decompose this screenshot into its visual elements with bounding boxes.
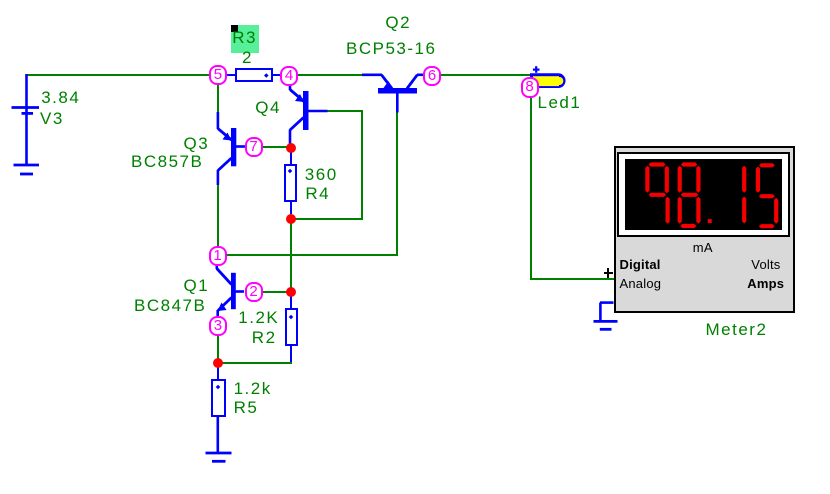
resistor R3 (box): [235, 68, 273, 82]
wire node 2 to junction: [261, 291, 291, 293]
junction dot node 2 / R2 top: [286, 287, 296, 297]
pin R3 left (blue): [224, 74, 236, 76]
selection handle square: [231, 25, 238, 32]
resistor R5 (box): [211, 379, 226, 417]
digit 9: [649, 162, 666, 166]
meter display black area: [625, 159, 782, 230]
transistor Q3 BC857B (PNP): [200, 105, 260, 195]
node 7: [245, 137, 263, 157]
meter mode Digital (bold): [620, 258, 661, 271]
node 5: [209, 65, 227, 85]
label Q1: [184, 277, 210, 294]
wire R2 bottom horizontal to node 3 column junction: [217, 362, 292, 364]
digit 5: [759, 163, 775, 167]
wire node 3 down to junction: [217, 334, 219, 360]
node 8: [521, 77, 539, 98]
wire loop vertical x=362: [361, 110, 363, 220]
junction dot node 3 column / R2 bottom: [213, 358, 223, 368]
ground under R5: [195, 415, 245, 470]
meter Meter2 body: [614, 146, 796, 313]
meter range Volts: [751, 258, 780, 271]
transistor Q4 (PNP): [280, 80, 340, 150]
decimal point: [708, 219, 712, 223]
node 3: [209, 316, 227, 336]
digit 1: [742, 165, 746, 192]
wire node 7 to R4 top junction: [260, 146, 292, 148]
label V3 value 3.84: [41, 89, 80, 106]
resistor R4 (box): [284, 164, 297, 202]
wire node 1 rail to Q2 collector column: [217, 254, 398, 256]
label Q1 type BC847B: [134, 297, 206, 314]
label R5 value 1.2k: [234, 380, 272, 397]
wire Q2 collector vertical: [396, 112, 398, 256]
pin R4 bottom (blue): [290, 200, 292, 214]
label Q2: [385, 14, 411, 31]
highlight box around R3 label (selection): [231, 25, 259, 53]
resistor R2 (box): [285, 308, 299, 346]
meter unit label mA: [693, 241, 713, 254]
wire battery top to node 5 (top rail left): [26, 74, 211, 76]
wire node 8 down to meter row: [530, 97, 532, 280]
node 2: [245, 282, 263, 302]
node 4: [280, 66, 298, 86]
wire to meter + terminal: [530, 278, 614, 280]
R3 diamond marker: [261, 71, 272, 80]
digit 8: [681, 162, 697, 166]
label Q4: [255, 99, 281, 116]
label R4: [305, 185, 330, 202]
label Meter2: [706, 321, 768, 338]
label R2 value 1.2K: [238, 309, 279, 326]
wire node 5 down to Q3 emitter: [217, 84, 219, 113]
junction dot R4 top (node 7 net): [286, 143, 296, 153]
LED Led1: [525, 58, 580, 93]
pin R4 top (blue): [290, 150, 292, 165]
wire R4 bottom junction to loop: [291, 218, 363, 220]
wire Q3 collector down to node 1: [217, 184, 219, 247]
meter mode Analog: [620, 277, 662, 290]
label R3 value 2: [242, 49, 253, 66]
wire node 4 to Q2 base lead: [297, 74, 363, 76]
wire node 6 to node 8 (LED anode): [439, 74, 530, 76]
meter 7-segment reading 98.15: [625, 159, 782, 230]
R2 diamond marker: [287, 313, 295, 321]
R5 diamond marker: [214, 383, 222, 391]
node 1: [209, 246, 227, 266]
label Q2 type BCP53-16: [346, 40, 436, 57]
wire R4 bottom junction down to node 2 junction: [290, 223, 292, 292]
meter + terminal mark: [604, 272, 613, 275]
transistor Q2 BCP53-16 (PNP, horizontal): [355, 60, 435, 120]
battery V3: [0, 60, 60, 190]
label R2: [252, 329, 277, 346]
meter range Amps (bold): [747, 277, 784, 290]
label R3: [232, 29, 257, 46]
R4 diamond marker: [286, 167, 294, 175]
label Q3: [184, 135, 210, 152]
node 6: [423, 66, 441, 86]
meter display frame: [617, 152, 790, 238]
label Led1: [538, 94, 582, 111]
pin R2 top (blue): [290, 295, 292, 309]
label R4 value 360: [305, 166, 338, 183]
label V3: [40, 110, 64, 127]
pin R2 bottom (blue): [290, 344, 292, 362]
transistor Q1 BC847B (NPN): [200, 255, 260, 325]
junction dot R4 bottom: [286, 214, 296, 224]
pin R5 top (blue): [217, 366, 219, 380]
ground at meter: [585, 295, 630, 340]
wire Q4 base to loop corner: [327, 110, 363, 112]
label Q3 type BC857B: [131, 153, 203, 170]
label R5: [234, 399, 259, 416]
pin R3 right (blue): [272, 74, 283, 76]
